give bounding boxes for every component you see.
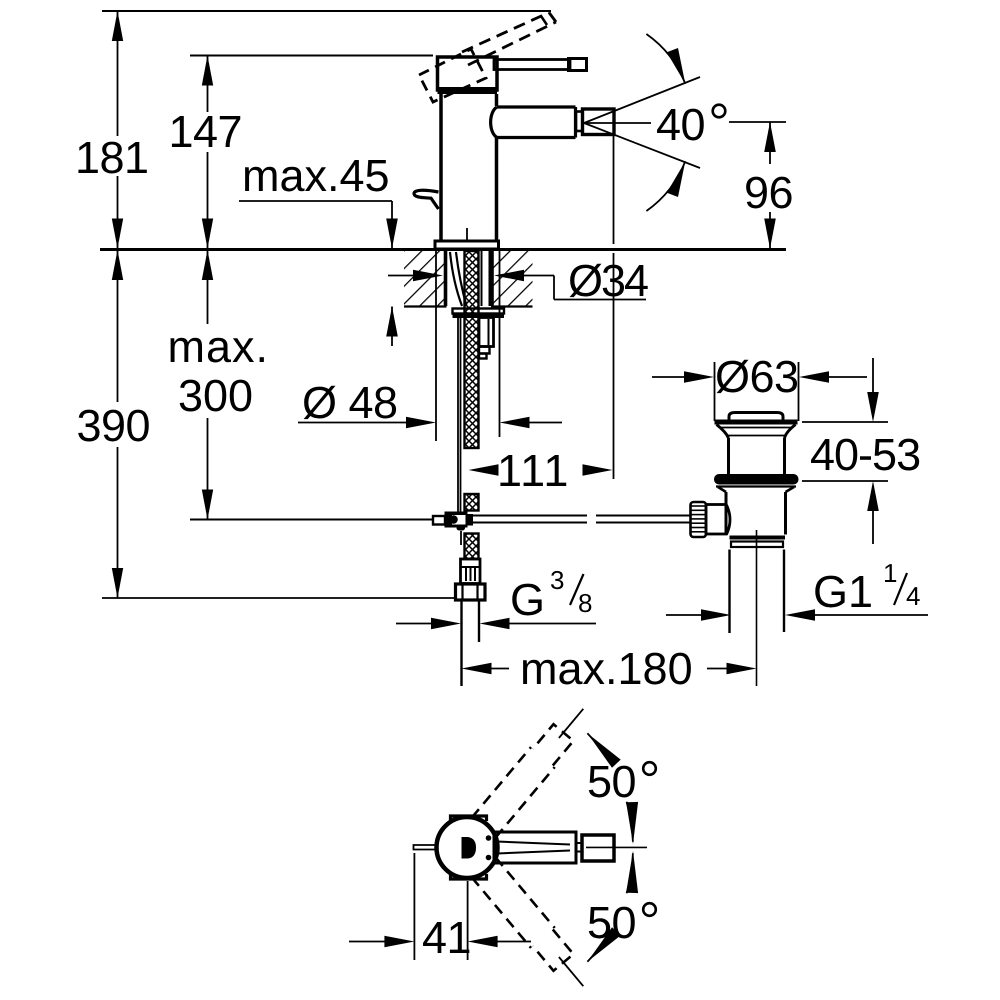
lever bar bbox=[494, 60, 570, 70]
locknut washer below deck bbox=[453, 309, 505, 314]
plan lever bar bbox=[494, 832, 576, 863]
svg-text:390: 390 bbox=[77, 400, 151, 451]
svg-text:max.45: max.45 bbox=[242, 150, 390, 201]
faucet body bbox=[439, 94, 443, 241]
waste knob bbox=[729, 413, 783, 422]
plan screw dots bbox=[486, 835, 492, 841]
horizontal drain rod right (double line) bbox=[473, 515, 587, 517]
plan body circle bbox=[437, 817, 498, 878]
aerator bbox=[583, 109, 615, 135]
svg-text:4: 4 bbox=[906, 581, 920, 611]
waste centerline bbox=[756, 530, 758, 686]
svg-text:300: 300 bbox=[178, 370, 253, 421]
plan pull rod stub bbox=[414, 845, 437, 850]
plan dashed lever upper extension bbox=[559, 709, 583, 738]
waste o-ring band bbox=[714, 474, 799, 485]
dimension O63 bbox=[714, 362, 716, 421]
dashed lever tip cap bbox=[549, 13, 556, 23]
dimension 111 bbox=[613, 134, 615, 244]
dimension O34 bbox=[388, 275, 414, 277]
dashed lever knob mark bbox=[541, 16, 547, 25]
svg-text:41: 41 bbox=[422, 912, 471, 963]
G3/8 nut bbox=[456, 584, 486, 600]
counter hatch left bbox=[404, 251, 447, 306]
plan dashed lever upper bbox=[496, 767, 555, 837]
waste trumpet sides bbox=[717, 425, 796, 439]
braided hose upper segment bbox=[465, 251, 479, 448]
dimension G1 1/4 bbox=[666, 614, 703, 616]
dashed lever lines bbox=[462, 13, 549, 53]
plan bottom chord bbox=[451, 874, 487, 879]
spray arc lower bbox=[646, 161, 685, 211]
spray centerline bbox=[584, 122, 651, 124]
waste groove band bbox=[731, 542, 783, 548]
spout neck bbox=[576, 112, 583, 132]
counter bottom edges bbox=[404, 305, 447, 307]
pull rod ball joint bbox=[457, 524, 466, 531]
plan top chord bbox=[451, 816, 487, 821]
locknut band bbox=[453, 314, 505, 319]
spray arc upper bbox=[646, 34, 685, 84]
extension line top (handle max height) bbox=[102, 10, 551, 12]
dimension 40-53 bbox=[802, 421, 888, 423]
faucet cartridge box bbox=[438, 57, 498, 90]
svg-text:40: 40 bbox=[656, 99, 705, 150]
svg-text:8: 8 bbox=[578, 588, 592, 618]
dimension max.300 bbox=[207, 250, 209, 324]
svg-text:1: 1 bbox=[883, 558, 897, 588]
plan 50deg arc lower bbox=[627, 853, 633, 893]
svg-text:96: 96 bbox=[744, 167, 793, 218]
G3/8 tail pipe bbox=[460, 600, 462, 686]
faucet box bottom band bbox=[438, 87, 498, 94]
counter hatch right bbox=[491, 251, 533, 306]
svg-text:Ø 48: Ø 48 bbox=[302, 377, 398, 428]
pull rod below deck bbox=[457, 318, 459, 524]
svg-text:max.: max. bbox=[168, 321, 270, 372]
plan lever knob bbox=[582, 835, 614, 861]
dimension 181 bbox=[117, 11, 119, 136]
svg-text:G: G bbox=[510, 574, 545, 625]
390 bottom level line bbox=[102, 597, 455, 599]
dimension 41 bbox=[413, 853, 415, 960]
waste shoulder bbox=[718, 487, 794, 492]
svg-text:Ø34: Ø34 bbox=[568, 255, 648, 306]
rod clamp block bbox=[445, 512, 468, 528]
dimension 390 bbox=[117, 250, 119, 402]
svg-text:G1: G1 bbox=[813, 566, 873, 617]
shank hole walls bbox=[444, 250, 448, 306]
waste tail pipe bbox=[728, 550, 730, 634]
svg-text:Ø63: Ø63 bbox=[715, 351, 799, 402]
spray line lower bbox=[584, 123, 700, 168]
dimension max.180 bbox=[491, 668, 509, 670]
dimension G3/8 bbox=[396, 623, 432, 625]
dashed handle box (alternate position) bbox=[419, 49, 486, 102]
rod guide steps bbox=[479, 347, 490, 354]
lever knob bbox=[569, 59, 587, 71]
horizontal drain rod left bbox=[190, 519, 433, 521]
svg-text:3: 3 bbox=[550, 565, 564, 595]
plan centerline right bbox=[586, 846, 647, 848]
faucet body centerline stub bbox=[466, 228, 468, 241]
svg-text:50: 50 bbox=[587, 756, 636, 807]
plan 50deg arc upper bbox=[627, 802, 633, 842]
svg-text:40-53: 40-53 bbox=[810, 429, 920, 480]
dimension 147 bbox=[207, 56, 209, 113]
waste flange plate bbox=[715, 420, 798, 425]
plan dashed lever lower bbox=[496, 858, 555, 928]
hose bend inside hole bbox=[450, 252, 467, 306]
plan lever taper lines bbox=[497, 842, 570, 845]
plan cartridge D bbox=[462, 837, 477, 859]
waste bottom ring bbox=[730, 536, 786, 540]
rod guide tubes in hole bbox=[481, 250, 483, 306]
waste valve body bbox=[725, 492, 728, 535]
pull rod hook on body bbox=[414, 190, 439, 209]
dimension 96 bbox=[729, 121, 786, 123]
waste neck body bbox=[727, 438, 730, 474]
rod socket right bbox=[468, 514, 474, 526]
svg-text:147: 147 bbox=[169, 106, 243, 157]
dimension O48 bbox=[435, 250, 437, 441]
waste neck rings bbox=[721, 427, 791, 429]
base plate bbox=[435, 241, 499, 249]
plan lever neck bbox=[576, 842, 582, 844]
svg-text:111: 111 bbox=[497, 445, 570, 496]
counter top line bbox=[100, 248, 786, 251]
svg-text:50: 50 bbox=[587, 897, 636, 948]
spray line upper bbox=[584, 77, 700, 123]
plan dashed lever lower extension bbox=[559, 957, 583, 986]
hose compression fitting bbox=[461, 559, 481, 584]
spout bbox=[491, 107, 576, 138]
dimension max.45 leader bbox=[239, 200, 392, 202]
waste inlet knurled knob bbox=[691, 502, 707, 537]
braided hose mid segment bbox=[465, 494, 479, 511]
rod guide box below deck bbox=[479, 318, 494, 347]
waste inlet connector bbox=[706, 505, 726, 535]
rod end cap bbox=[433, 516, 445, 525]
svg-text:max.180: max.180 bbox=[520, 643, 693, 694]
svg-text:181: 181 bbox=[75, 132, 149, 183]
braided hose lower segment bbox=[465, 534, 479, 560]
extension line 147 level bbox=[190, 55, 433, 57]
